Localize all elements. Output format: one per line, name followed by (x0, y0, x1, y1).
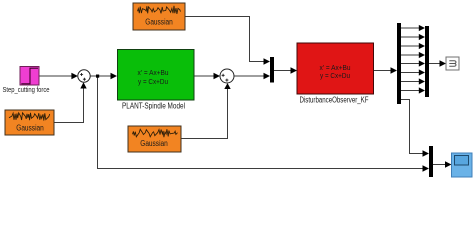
svg-text:PLANT-Spindle Model: PLANT-Spindle Model (122, 102, 185, 111)
svg-text:y = Cx+Du: y = Cx+Du (138, 77, 168, 86)
svg-text:DisturbanceObserver_KF: DisturbanceObserver_KF (300, 96, 369, 105)
svg-text:Gaussian: Gaussian (140, 139, 168, 148)
svg-text:y = Cx+Du: y = Cx+Du (320, 71, 350, 80)
svg-text:Step_cutting force: Step_cutting force (3, 85, 50, 94)
svg-text:Gaussian: Gaussian (145, 18, 173, 27)
svg-text:x' = Ax+Bu: x' = Ax+Bu (138, 68, 169, 77)
svg-text:Gaussian: Gaussian (16, 124, 44, 133)
